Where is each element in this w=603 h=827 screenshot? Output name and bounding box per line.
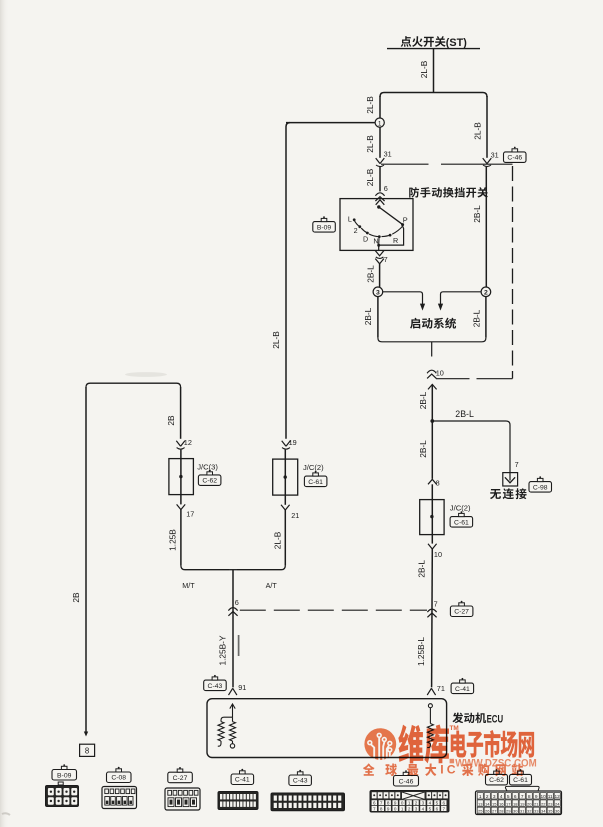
svg-text:6: 6	[384, 184, 388, 193]
connector B-09 label	[313, 216, 336, 232]
switch contact arc	[354, 220, 360, 227]
wire 2L-B into switch pin 6	[379, 166, 381, 191]
ECU pin 71 fork	[427, 688, 435, 695]
label engine ECU 发动机ECU	[452, 712, 463, 723]
wire to junction 1 from left	[286, 122, 375, 124]
svg-text:22: 22	[541, 801, 546, 806]
wire 1.25B	[180, 510, 182, 566]
junction dot	[430, 419, 434, 423]
watermark url WWW.DZSC.COM	[450, 759, 455, 764]
junction 3	[373, 287, 383, 297]
connector C-08 pin face	[107, 767, 132, 783]
wire 2B-L main drop	[428, 384, 437, 389]
svg-text:15: 15	[492, 801, 497, 806]
svg-text:J/C(2): J/C(2)	[450, 503, 471, 512]
svg-text:ECU: ECU	[487, 713, 504, 725]
label ignition switch 点火开关(ST)	[401, 36, 412, 47]
svg-text:2B-L: 2B-L	[418, 391, 428, 409]
svg-text:C-61: C-61	[308, 479, 323, 486]
svg-text:24: 24	[555, 801, 560, 806]
ignition switch terminal line	[387, 48, 480, 50]
pin 7 connector chevrons	[375, 251, 384, 256]
dash-dot harness line right	[512, 166, 514, 379]
label no connection 无连接	[490, 489, 501, 499]
svg-text:31: 31	[491, 150, 499, 159]
svg-text:7: 7	[380, 801, 383, 806]
svg-text:1: 1	[408, 801, 411, 806]
wire 2L-B	[284, 510, 286, 566]
svg-text:21: 21	[291, 511, 299, 520]
switch contact 2	[358, 225, 361, 228]
svg-text:8: 8	[528, 794, 531, 800]
svg-text:C-46: C-46	[507, 155, 522, 162]
inhibitor switch body box	[340, 199, 413, 251]
ECU internal resistor pair left	[221, 717, 233, 721]
wire 2B-L to J/C(2)	[431, 421, 433, 479]
svg-text:2B-L: 2B-L	[363, 307, 373, 325]
svg-text:27: 27	[492, 809, 497, 814]
svg-text:19: 19	[520, 801, 525, 806]
pin 7 connector chevrons C-27	[427, 609, 436, 612]
pin 8 connector chevron	[428, 479, 437, 484]
connector C-27 pin face	[168, 767, 193, 783]
svg-text:30: 30	[513, 809, 518, 814]
wire 2B far left to off-page 8	[85, 387, 87, 735]
svg-text:5: 5	[436, 801, 439, 806]
pin 10 connector chevrons	[427, 370, 436, 373]
svg-text:33: 33	[534, 809, 539, 814]
svg-text:31: 31	[384, 150, 392, 159]
switch contact D	[366, 232, 369, 235]
svg-text:R: R	[393, 236, 398, 245]
svg-text:3: 3	[493, 794, 496, 800]
svg-text:7: 7	[443, 806, 446, 811]
svg-text:10: 10	[541, 794, 547, 800]
svg-text:B-09: B-09	[57, 772, 72, 779]
engine ECU box	[207, 699, 447, 758]
svg-text:6: 6	[443, 801, 446, 806]
svg-text:C: C	[447, 763, 456, 777]
svg-text:P: P	[403, 215, 408, 224]
svg-text:2B-L: 2B-L	[365, 265, 375, 283]
connector C-46 boundary line	[381, 163, 429, 165]
connector C-43 label	[204, 675, 227, 691]
svg-text:32: 32	[527, 809, 532, 814]
svg-text:C-08: C-08	[111, 775, 126, 782]
svg-text:C-46: C-46	[399, 778, 414, 785]
svg-text:(ST): (ST)	[446, 37, 467, 49]
svg-text:J/C(2): J/C(2)	[303, 463, 324, 472]
svg-text:1: 1	[401, 806, 404, 811]
svg-text:C-98: C-98	[533, 484, 548, 491]
switch N stub	[378, 238, 380, 245]
svg-text:17: 17	[506, 801, 511, 806]
svg-text:5: 5	[429, 806, 432, 811]
svg-text:D: D	[363, 234, 368, 243]
svg-text:19: 19	[289, 438, 297, 447]
svg-text:C-27: C-27	[173, 775, 188, 782]
svg-text:1.25B-Y: 1.25B-Y	[218, 635, 228, 665]
svg-text:3: 3	[376, 290, 380, 297]
joint connector J/C(2) box left	[273, 459, 298, 495]
svg-text:3: 3	[422, 801, 425, 806]
wire branch to no-connection	[432, 421, 510, 463]
svg-text:C-61: C-61	[454, 519, 469, 526]
svg-text:3: 3	[415, 806, 418, 811]
svg-text:5: 5	[507, 794, 510, 800]
svg-text:B-09: B-09	[317, 224, 332, 231]
svg-text:7: 7	[384, 255, 388, 264]
svg-text:1: 1	[479, 794, 482, 800]
switch contact L	[353, 218, 356, 221]
svg-text:8: 8	[380, 806, 383, 811]
svg-text:1.25B-L: 1.25B-L	[416, 637, 426, 666]
wire center merge down	[232, 570, 234, 688]
watermark text 维库	[398, 725, 423, 764]
switch common contact	[377, 205, 380, 208]
wire right branch 2L-B	[486, 96, 488, 158]
label inhibitor switch 防手动换挡开关	[409, 187, 419, 197]
wire 2B-L to junction 3	[379, 264, 381, 287]
svg-text:2B-L: 2B-L	[472, 205, 482, 223]
ECU pin 91 fork	[229, 688, 237, 695]
wire junction 3 to starting system arrow	[383, 292, 423, 305]
wire split header	[380, 93, 487, 98]
svg-text:7: 7	[434, 600, 438, 609]
svg-text:2B-L: 2B-L	[455, 409, 474, 419]
svg-text:C-41: C-41	[455, 686, 470, 693]
pin 17 chevron	[177, 504, 186, 509]
off-page reference box 8	[80, 744, 95, 756]
switch wire P to output	[379, 226, 404, 250]
svg-text:C-43: C-43	[208, 683, 223, 690]
joint connector J/C(3) box	[169, 459, 194, 495]
svg-text:10: 10	[436, 369, 444, 378]
svg-text:2B-L: 2B-L	[417, 560, 427, 578]
pin 6 connector chevrons C-27	[228, 608, 237, 611]
svg-text:2L-B: 2L-B	[419, 60, 429, 78]
switch contact R	[389, 234, 392, 237]
svg-text:4: 4	[429, 801, 432, 806]
svg-text:M/T: M/T	[182, 581, 195, 590]
wire below junction 2	[485, 297, 487, 338]
svg-text:C-43: C-43	[293, 778, 308, 785]
svg-text:31: 31	[520, 809, 525, 814]
svg-text:0: 0	[394, 806, 397, 811]
svg-text:1.25B: 1.25B	[168, 529, 178, 551]
watermark text 电子市场网	[451, 731, 467, 758]
svg-text:18: 18	[513, 801, 518, 806]
svg-text:10: 10	[434, 550, 442, 559]
pin 6 connector chevrons	[375, 193, 384, 196]
svg-text:2L-B: 2L-B	[271, 331, 281, 349]
wire 2B-L right drop to junction 2	[485, 166, 487, 287]
connector C-62 C-61 pin face	[486, 769, 508, 785]
connector C-27 dashed boundary	[436, 378, 470, 380]
svg-text:28: 28	[499, 809, 504, 814]
pin 21 chevron	[281, 505, 290, 510]
ECU internal pull-up arrow left	[230, 704, 235, 709]
junction 1	[375, 118, 384, 127]
svg-text:4: 4	[500, 794, 503, 800]
wire below junction 3	[377, 297, 379, 338]
svg-text:2: 2	[415, 801, 418, 806]
svg-text:2L-B: 2L-B	[365, 135, 375, 153]
svg-text:2B: 2B	[71, 592, 81, 603]
wire 2B-L down to C-27	[431, 549, 434, 687]
connector B-09 pin face	[52, 764, 77, 780]
svg-text:16: 16	[499, 801, 504, 806]
wire left branch 2L-B	[379, 96, 381, 118]
svg-text:0: 0	[401, 801, 404, 806]
M/T A/T merge bracket	[181, 566, 229, 570]
svg-text:23: 23	[548, 801, 553, 806]
svg-text:9: 9	[535, 794, 538, 800]
wire 2B to J/C(3)	[180, 387, 182, 439]
svg-text:2: 2	[408, 806, 411, 811]
svg-text:7: 7	[373, 806, 376, 811]
connector C-98 label	[529, 476, 552, 492]
svg-text:4: 4	[422, 806, 425, 811]
svg-text:91: 91	[238, 683, 246, 692]
svg-text:8: 8	[85, 746, 89, 755]
svg-text:12: 12	[184, 438, 192, 447]
svg-text:C-62: C-62	[202, 478, 217, 485]
pin 19 connector arrow	[282, 441, 291, 447]
pin 10 chevron below J/C(2)	[428, 544, 437, 549]
svg-text:2B: 2B	[166, 415, 176, 426]
connector C-27 dashed boundary line	[240, 609, 427, 611]
svg-text:26: 26	[485, 809, 490, 814]
svg-text:36: 36	[555, 809, 560, 814]
svg-text:20: 20	[527, 801, 532, 806]
svg-text:8: 8	[387, 801, 390, 806]
svg-text:C-62: C-62	[489, 777, 504, 784]
svg-text:6: 6	[436, 806, 439, 811]
svg-text:71: 71	[437, 684, 445, 693]
svg-text:35: 35	[548, 809, 553, 814]
svg-text:1: 1	[378, 120, 382, 127]
switch contact P	[401, 223, 404, 226]
svg-text:6: 6	[235, 598, 239, 607]
svg-text:C-27: C-27	[454, 609, 469, 616]
svg-text:9: 9	[387, 806, 390, 811]
svg-text:7: 7	[521, 794, 524, 800]
svg-text:2L-B: 2L-B	[472, 122, 482, 140]
svg-text:7: 7	[515, 460, 519, 469]
svg-text:11: 11	[548, 794, 553, 800]
svg-text:25: 25	[478, 809, 483, 814]
svg-text:A/T: A/T	[266, 581, 278, 590]
pin 12 connector arrow	[176, 441, 185, 447]
label starting system 启动系统	[410, 318, 420, 329]
svg-text:12: 12	[555, 794, 561, 800]
switch wiper arm to P	[379, 207, 402, 224]
wire 2L-B from ignition switch ST	[433, 49, 435, 93]
svg-text:17: 17	[186, 510, 194, 519]
wire 2L-B long left drop to J/C(2)	[286, 123, 290, 439]
svg-text:2L-B: 2L-B	[272, 531, 282, 549]
svg-text:2L-B: 2L-B	[365, 96, 375, 114]
svg-text:2L-B: 2L-B	[365, 168, 375, 186]
svg-text:29: 29	[506, 809, 511, 814]
wire merge bracket	[378, 338, 486, 342]
svg-text:9: 9	[394, 801, 397, 806]
wire 2L-B below junction 1	[379, 127, 381, 158]
junction 2	[481, 287, 491, 297]
ECU internal resistor right	[428, 704, 432, 708]
wire junction 2 to starting system arrow	[441, 292, 482, 305]
svg-text:C-41: C-41	[235, 777, 250, 784]
svg-text:2B-L: 2B-L	[418, 440, 428, 458]
connector C-41 label	[451, 678, 474, 694]
svg-text:6: 6	[373, 801, 376, 806]
connector C-41 pin face	[231, 769, 254, 785]
switch contact N	[378, 235, 381, 238]
watermark text 全球最大IC采购网站	[363, 763, 375, 775]
svg-text:2: 2	[486, 794, 489, 800]
connector C-46 label	[504, 147, 527, 163]
svg-text:14: 14	[485, 801, 490, 806]
connector C-46 pin face	[394, 770, 419, 786]
svg-text:13: 13	[478, 801, 483, 806]
svg-text:6: 6	[514, 794, 517, 800]
svg-text:C-61: C-61	[513, 777, 528, 784]
svg-text:J/C(3): J/C(3)	[197, 462, 218, 471]
svg-text:2: 2	[354, 226, 358, 235]
svg-text:2B-L: 2B-L	[471, 309, 481, 327]
svg-text:21: 21	[534, 801, 539, 806]
svg-text:2: 2	[484, 290, 488, 297]
svg-text:I: I	[440, 763, 443, 777]
svg-text:8: 8	[436, 479, 440, 488]
svg-text:34: 34	[541, 809, 546, 814]
watermark logo circle	[364, 728, 396, 760]
joint connector J/C(2) box middle	[420, 500, 444, 535]
left branch header wire 2B	[86, 383, 181, 387]
no connection terminal box	[503, 473, 518, 486]
connector C-43 pin face	[289, 770, 312, 786]
svg-text:L: L	[348, 215, 352, 224]
